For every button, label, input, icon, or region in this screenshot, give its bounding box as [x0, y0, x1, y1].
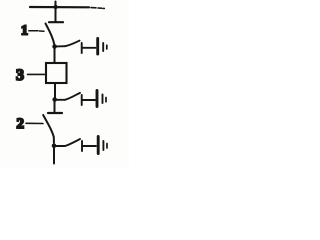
ground 3 middle bar: [102, 141, 104, 150]
wire node A down to box 3: [54, 47, 56, 63]
leader line for label 1: [29, 30, 44, 32]
svg-text:3: 3: [16, 67, 24, 84]
wire stub above top junction: [55, 2, 57, 8]
box component 3: [46, 63, 67, 83]
junction dot node B: [52, 97, 57, 102]
wire branch 2 to ground: [83, 99, 96, 101]
wire box 3 down to node B: [54, 84, 56, 98]
branch 2 fixed contact bar: [81, 95, 83, 105]
leader line for label 2: [26, 122, 43, 124]
svg-text:2: 2: [17, 116, 25, 132]
ground 2 long bar: [96, 91, 99, 107]
branch 3 contact blade: [65, 139, 80, 146]
wire top bus: [30, 6, 89, 9]
branch 1 fixed contact bar: [81, 43, 83, 53]
svg-text:1: 1: [21, 24, 28, 39]
junction dot node A: [52, 44, 57, 49]
branch 2 contact blade: [65, 93, 80, 100]
switch 1 blade: [46, 24, 55, 45]
ground 1 middle bar: [102, 43, 104, 51]
wire branch 1 to ground: [83, 47, 96, 49]
switch 1 fixed contact bar: [49, 21, 63, 23]
wire top bus dashed right end: [91, 7, 104, 10]
ground 2 middle bar: [102, 95, 104, 104]
branch 1 contact blade: [65, 41, 80, 47]
leader line for label 3: [28, 73, 45, 75]
switch 2 blade: [43, 115, 54, 143]
wire branch 1 from node A: [57, 45, 66, 47]
wire branch 3 from node C: [56, 145, 65, 147]
ground 1 short bar: [106, 45, 108, 49]
ground 3 long bar: [97, 137, 100, 154]
ground 1 long bar: [96, 39, 99, 55]
wire node B down to switch 2: [54, 101, 56, 112]
wire branch 2 from node B: [57, 99, 65, 101]
ground 3 short bar: [106, 144, 108, 149]
ground 2 short bar: [105, 98, 107, 102]
junction dot top bus: [53, 5, 57, 9]
wire branch 3 to ground: [83, 145, 96, 147]
branch 3 fixed contact bar: [81, 141, 83, 151]
wire from top junction down to switch 1: [55, 7, 57, 21]
junction dot node C: [52, 144, 57, 149]
wire node C down to bottom edge: [53, 148, 55, 164]
switch 2 fixed contact bar: [48, 112, 62, 114]
